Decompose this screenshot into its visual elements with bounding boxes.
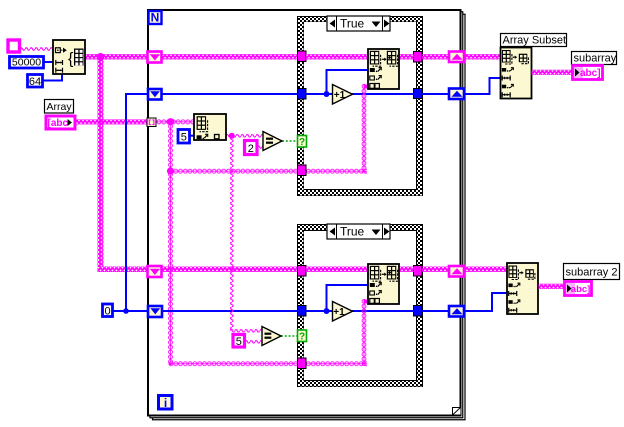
svg-text:subarray: subarray — [574, 53, 617, 65]
svg-text:+1: +1 — [334, 90, 346, 101]
loop tunnel: lower-right magenta out — [449, 266, 464, 277]
node: case1 blue junction — [324, 91, 330, 97]
wire: blue from 50000 to Initialize Array — [44, 61, 54, 63]
array subset icon lower — [507, 263, 538, 314]
case1 right magenta tunnel — [414, 52, 423, 63]
node: junction on Array wire — [167, 118, 174, 125]
wire: green boolean dashed to case1 selector tunnel — [282, 140, 298, 142]
svg-text:True: True — [340, 17, 365, 31]
wire: case2 vertical 1D rope into Replace Array Subset bottom — [362, 299, 367, 366]
case2 left magenta tunnel — [298, 266, 307, 277]
wire: blue loop edge to Array Subset 2 index input — [464, 293, 507, 311]
wire: 1D rope inside case2 from lower tunnel to vertical — [306, 361, 367, 366]
wire: blue inside loop lower — [162, 310, 298, 312]
case1 lower-left magenta tunnel — [298, 165, 307, 176]
case2 lower-left magenta tunnel — [298, 358, 307, 369]
svg-text:0: 0 — [104, 306, 110, 318]
svg-text:i: i — [164, 396, 167, 410]
wire: case1 2D rope icon to right tunnel — [399, 54, 414, 60]
svg-text:?: ? — [299, 137, 305, 148]
wire: case2 blue tunnel to +1 — [306, 310, 333, 312]
case structure 2 selector label "True" — [327, 224, 390, 239]
case structure 1 selector label "True" — [327, 16, 390, 31]
wire: blue from 0 constant to lower-left loop tunnel — [113, 310, 148, 312]
wire: string wavy 5 constant to lower = — [245, 340, 263, 344]
case structure 2 border (hatched) — [298, 225, 423, 387]
loop tunnel: upper-right blue out — [449, 89, 464, 100]
case1 boolean selector tunnel ? — [298, 136, 307, 148]
for-loop count terminal N — [149, 11, 162, 25]
numeric constant 5 (index) — [178, 130, 190, 144]
wire: case2 blue vertical to Replace Array Subset index input — [327, 285, 369, 311]
label subarray — [572, 52, 617, 65]
wire: case2 2D rope icon to right tunnel — [399, 267, 414, 273]
case structure 1 border (hatched) — [298, 17, 423, 196]
node: junction on top 2D-array wire — [97, 53, 105, 61]
case1 left magenta tunnel — [298, 51, 307, 62]
case2 boolean selector tunnel ? — [298, 330, 307, 342]
svg-text:{: { — [68, 51, 74, 68]
node: blue junction at 0 constant — [123, 308, 129, 314]
wire: case1 vertical 1D rope into Replace Array Subset bottom — [362, 84, 367, 174]
wire: 1D rope to case2 lower-left tunnel — [169, 361, 299, 366]
wire: case2 blue +1 output to right tunnel — [352, 310, 414, 312]
wire: 2D rope inside loop lower — [162, 267, 298, 273]
loop tunnel: lower-left magenta in — [148, 266, 162, 277]
wire: vertical 2D-array rope down left side — [98, 59, 104, 267]
loop tunnel: upper-right magenta out — [449, 52, 464, 63]
node: case2 blue junction — [324, 308, 330, 314]
svg-text:?: ? — [299, 331, 305, 342]
wire: string wavy vertical down to lower = — [230, 137, 234, 330]
empty string constant (pink square) — [8, 40, 20, 52]
wire: 1D rope Array Subset to subarray indicator — [532, 70, 573, 75]
svg-text:+1: +1 — [333, 307, 345, 318]
wire: 1D rope to case1 lower-left tunnel — [169, 169, 299, 174]
wire: 2D rope case1 right tunnel to loop edge tunnel — [422, 54, 449, 60]
wire: vertical 1D rope down to lower feeds — [168, 124, 173, 365]
array subset icon upper — [501, 48, 532, 99]
for-loop stacked frame line 2 — [150, 12, 463, 418]
loop tunnel: lower-left blue in — [148, 306, 162, 317]
svg-text:64: 64 — [29, 76, 41, 88]
wire: 1D string-array rope from Array control to [] tunnel and Index Array — [74, 119, 147, 124]
wire: green boolean dashed to case2 selector tunnel — [281, 335, 298, 337]
wire: blue inside loop top — [162, 93, 298, 95]
string array indicator subarray — [573, 66, 603, 80]
loop tunnel: upper-left magenta auto-index in — [148, 52, 162, 63]
string array indicator subarray 2 — [565, 282, 592, 296]
wire: blue loop edge to Array Subset index input — [464, 78, 501, 94]
svg-text:True: True — [340, 225, 365, 239]
wire: case1 2D rope left tunnel to Replace Array Subset — [306, 54, 368, 60]
wire: 1D rope inside case1 from lower tunnel to vertical — [306, 169, 367, 174]
wire: blue 5 to Index Array — [189, 135, 195, 137]
svg-text:[abc: [abc — [48, 118, 69, 129]
wire: 1D rope Array Subset 2 to subarray 2 indicator — [539, 284, 565, 289]
svg-text:N: N — [151, 11, 160, 25]
case2 left blue tunnel — [298, 306, 307, 317]
wire: string wavy Index Array output to = — [226, 134, 263, 138]
node: junction on string wire — [229, 133, 235, 139]
wire: 2D-array rope into lower-left loop tunnel — [98, 267, 148, 273]
increment +1 function case1 — [333, 85, 353, 105]
label subarray 2 — [564, 264, 620, 280]
label Array — [45, 100, 74, 114]
replace array subset icon case2 — [368, 264, 399, 304]
for-loop stacked frame line 3 — [153, 14, 466, 420]
svg-text:2: 2 — [248, 143, 254, 155]
string constant 5 (lower) — [233, 335, 245, 349]
loop tunnel: upper-left blue in — [148, 89, 162, 100]
wire: blue case1 right tunnel to loop edge — [422, 93, 449, 95]
svg-text:abc]: abc] — [580, 68, 601, 79]
node: junction on vertical 1D rope — [167, 167, 174, 174]
svg-text:5: 5 — [181, 132, 187, 144]
for-loop border — [148, 10, 461, 416]
wire: 2D rope case2 right tunnel to loop edge tunnel — [422, 267, 449, 273]
numeric constant 0 — [103, 304, 113, 318]
svg-text:subarray 2: subarray 2 — [566, 267, 618, 279]
svg-text:Array: Array — [47, 101, 73, 113]
wire: string wavy into lower = top input — [230, 329, 263, 333]
wire: case2 2D rope left tunnel to Replace Array Subset — [306, 267, 368, 273]
numeric constant 50000 — [10, 57, 44, 69]
case1 left blue tunnel — [298, 89, 307, 100]
numeric constant 64 — [28, 75, 43, 88]
string array control [abc — [46, 116, 75, 129]
wire: blue vertical from junction up to upper-left loop tunnel — [125, 93, 127, 311]
wire: 2D rope loop edge to Array Subset 2 — [464, 267, 507, 273]
label Array Subset — [501, 34, 567, 47]
increment +1 function case2 — [333, 302, 353, 322]
for-loop resize corner notch — [453, 408, 461, 415]
wire: string wavy 2 constant to = — [257, 145, 264, 149]
wire: string scalar wavy from empty string constant to Initialize Array — [20, 47, 53, 51]
initialize array icon — [53, 40, 85, 74]
case1 right blue tunnel — [414, 89, 423, 99]
replace array subset icon case1 — [368, 49, 399, 89]
wire: 2D-array rope from Initialize Array to left loop tunnel — [85, 54, 147, 60]
wire: case1 blue tunnel to +1 — [306, 93, 333, 95]
index array icon — [194, 114, 226, 140]
loop tunnel: lower-right blue out — [449, 306, 464, 317]
case2 right blue tunnel — [414, 306, 423, 317]
svg-text:5: 5 — [236, 336, 242, 348]
wire: 2D rope loop edge to Array Subset — [464, 54, 501, 60]
wire: blue from 64 up into Initialize Array bottom — [44, 74, 63, 81]
svg-text:Array Subset: Array Subset — [503, 35, 567, 47]
svg-text:50000: 50000 — [12, 57, 41, 69]
string constant 2 — [245, 141, 258, 155]
equal? comparator case1 — [263, 132, 282, 151]
for-loop iteration terminal i — [159, 396, 173, 410]
loop tunnel: [] non-indexing string array — [147, 118, 156, 127]
wire: blue case2 right tunnel to loop edge — [422, 310, 449, 312]
equal? comparator case2 — [262, 327, 281, 346]
wire: 2D rope inside loop top — [162, 54, 298, 60]
wire: case1 blue +1 output to right tunnel — [352, 93, 414, 95]
svg-text:abc]: abc] — [571, 284, 591, 295]
wire: case1 blue vertical to Replace Array Subset index input — [327, 70, 369, 94]
case2 right magenta tunnel — [414, 266, 423, 277]
